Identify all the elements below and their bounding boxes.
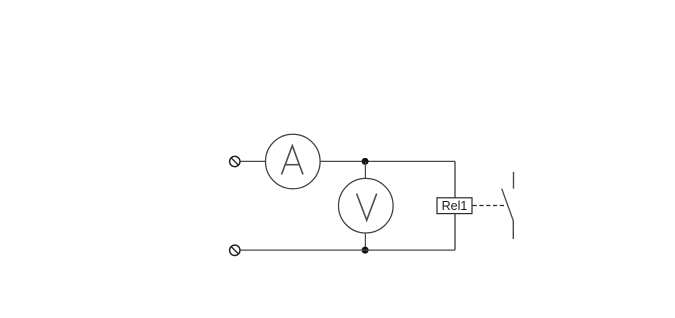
- terminal J2 (bottom left): [230, 245, 240, 255]
- bottom wire J2 to right vertical: [240, 249, 455, 251]
- node junction top: [362, 158, 369, 165]
- dashed actuation link: [473, 205, 505, 207]
- right vertical wire: [454, 161, 456, 250]
- voltmeter V: [339, 178, 394, 233]
- relay coil Rel1: [437, 198, 472, 214]
- node junction bottom: [362, 247, 369, 254]
- wire junction to voltmeter: [364, 161, 366, 178]
- wire J1 to ammeter: [240, 160, 265, 162]
- switch S1 blade: [502, 189, 514, 221]
- svg-text:Rel1: Rel1: [442, 199, 468, 213]
- ammeter A: [266, 134, 321, 189]
- wire voltmeter to bottom junction: [364, 233, 366, 250]
- switch S1 top lead: [513, 172, 515, 189]
- switch S1 bottom lead: [512, 221, 514, 239]
- terminal J1 (top left): [230, 156, 240, 166]
- wire ammeter to right vertical: [320, 160, 455, 162]
